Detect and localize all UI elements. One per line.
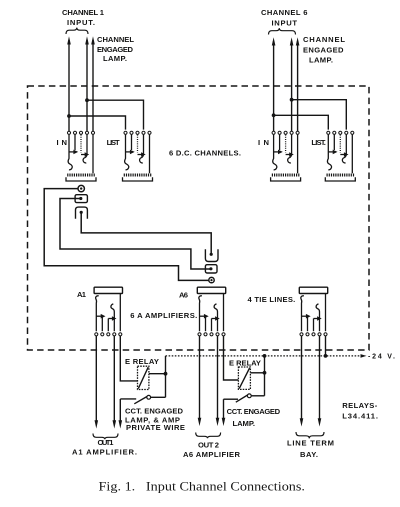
svg-text:BAY.: BAY. bbox=[300, 450, 318, 459]
svg-text:LIST.: LIST. bbox=[311, 138, 326, 147]
dashed equipment enclosure border bbox=[28, 86, 370, 350]
wire E relay (A1) coil to -24V riser bbox=[149, 373, 166, 375]
brace OUT 1 bbox=[93, 434, 118, 440]
svg-text:-24 V.: -24 V. bbox=[368, 354, 395, 361]
wire channel 6 engaged lamp lead (with up arrow) bbox=[296, 37, 300, 131]
ring contact of channel 1 plug bbox=[75, 195, 87, 203]
svg-text:IN: IN bbox=[57, 138, 68, 147]
brace channel 1 input pair bbox=[66, 28, 88, 34]
svg-text:RELAYS-: RELAYS- bbox=[342, 401, 377, 410]
wire branch channel 6 line B to LIST jack bbox=[292, 100, 347, 130]
svg-text:CCT. ENGAGED: CCT. ENGAGED bbox=[227, 407, 281, 416]
tie line jack bbox=[299, 287, 327, 336]
relay E (A6) coil bbox=[238, 367, 250, 389]
svg-text:6 D.C. CHANNELS.: 6 D.C. CHANNELS. bbox=[169, 149, 241, 158]
svg-text:LAMP.: LAMP. bbox=[233, 419, 256, 428]
wire plug lamp to tie plug lamp bbox=[44, 189, 209, 281]
svg-text:CHANNEL: CHANNEL bbox=[303, 35, 345, 44]
junction -24V rail / tie line sleeve bbox=[324, 354, 328, 358]
svg-text:CCT. ENGAGED: CCT. ENGAGED bbox=[125, 407, 184, 416]
junction E relay (A6) coil/riser bbox=[263, 371, 267, 375]
relay E (A1) contact bbox=[134, 395, 165, 403]
jack LIST (channel 1) bbox=[123, 131, 153, 181]
wire -24V riser (A1) bbox=[165, 356, 167, 397]
svg-text:A6: A6 bbox=[179, 291, 188, 300]
svg-text:L34.411.: L34.411. bbox=[342, 412, 378, 421]
wire branch channel 6 line A to LIST jack bbox=[274, 115, 329, 129]
wire -24V supply rail (with right arrow) bbox=[166, 354, 367, 358]
svg-text:LAMP.: LAMP. bbox=[309, 56, 333, 65]
ring contact of tie line plug bbox=[205, 265, 217, 273]
lamp contact of tie line plug bbox=[209, 277, 214, 282]
wire channel 1 input line B (with up arrow) bbox=[85, 36, 89, 131]
svg-text:INPUT: INPUT bbox=[272, 18, 298, 27]
svg-text:E RELAY: E RELAY bbox=[125, 357, 159, 366]
svg-text:E RELAY: E RELAY bbox=[229, 358, 261, 367]
svg-text:CHANNEL 1: CHANNEL 1 bbox=[62, 8, 105, 17]
junction E relay (A1) coil/riser bbox=[164, 372, 168, 376]
svg-text:ENGAGED: ENGAGED bbox=[303, 45, 344, 54]
junction channel 6 line A bbox=[272, 113, 276, 117]
wire channel 6 input line A (with up arrow) bbox=[272, 37, 276, 131]
svg-text:OUT 2: OUT 2 bbox=[198, 440, 219, 449]
wire channel 1 input line A (with up arrow) bbox=[67, 36, 71, 131]
wire A1 output lead 2 (down arrow) bbox=[113, 336, 117, 429]
wire E relay (A6) coil to -24V riser bbox=[250, 372, 264, 374]
wire A6 output lead 2 (down arrow) bbox=[216, 336, 220, 426]
svg-text:A1: A1 bbox=[77, 290, 87, 299]
svg-text:IN: IN bbox=[258, 138, 269, 147]
svg-text:PRIVATE WIRE: PRIVATE WIRE bbox=[126, 423, 185, 432]
wire tie line sleeve to -24V rail bbox=[325, 336, 327, 356]
wire E relay (A6) contact to private wire lead bbox=[224, 398, 239, 400]
wire A1 output lead 1 (down arrow) bbox=[95, 336, 99, 429]
wire channel 6 input line B (with up arrow) bbox=[290, 37, 294, 131]
svg-text:CHANNEL: CHANNEL bbox=[97, 35, 134, 44]
jack IN (channel 1) bbox=[66, 131, 96, 181]
svg-text:INPUT.: INPUT. bbox=[67, 18, 95, 27]
wire A1 sleeve to E relay coil bbox=[120, 336, 137, 381]
wire branch channel 1 line B to LIST jack bbox=[87, 100, 144, 129]
svg-text:OUT 1: OUT 1 bbox=[98, 438, 115, 447]
lamp contact of channel 1 plug bbox=[78, 185, 84, 191]
wire E relay (A1) contact to private wire lead bbox=[120, 398, 136, 400]
svg-text:A1 AMPLIFIER.: A1 AMPLIFIER. bbox=[72, 448, 137, 457]
wire A6 private wire lead (down arrow) bbox=[222, 399, 226, 426]
svg-text:Fig. 1. Input Channel Connec: Fig. 1. Input Channel Connections. bbox=[99, 479, 306, 494]
junction -24V rail / A6 riser bbox=[263, 354, 267, 358]
jack LIST (channel 6) bbox=[325, 131, 355, 181]
brace channel 6 input pair bbox=[269, 28, 296, 34]
wire A6 output lead 1 (down arrow) bbox=[198, 336, 202, 426]
brace line term bay bbox=[296, 432, 324, 438]
junction channel 1 line A bbox=[67, 114, 71, 118]
amplifier jack A6 bbox=[197, 287, 225, 336]
junction channel 6 line B bbox=[290, 98, 294, 102]
svg-text:6 A AMPLIFIERS.: 6 A AMPLIFIERS. bbox=[130, 311, 197, 320]
svg-text:CHANNEL 6: CHANNEL 6 bbox=[261, 8, 308, 17]
svg-text:4 TIE LINES.: 4 TIE LINES. bbox=[248, 295, 296, 304]
svg-text:A6 AMPLIFIER: A6 AMPLIFIER bbox=[183, 450, 241, 459]
wire A1 private wire lead (down arrow) bbox=[119, 399, 123, 429]
wire -24V riser (A6) bbox=[264, 356, 266, 396]
wire branch channel 1 line A to LIST jack bbox=[69, 116, 126, 130]
svg-text:ENGAGED: ENGAGED bbox=[97, 45, 134, 54]
wire plug tip to tie plug tip bbox=[81, 212, 211, 254]
wire channel 1 engaged lamp lead (with up arrow) bbox=[91, 36, 95, 131]
tip contact of tie line plug bbox=[205, 249, 218, 261]
svg-text:LAMP.: LAMP. bbox=[103, 54, 127, 63]
amplifier jack A1 bbox=[94, 287, 122, 336]
wire A6 sleeve to E relay coil bbox=[224, 336, 239, 380]
wire line term lead 1 (down arrow) bbox=[300, 336, 304, 427]
relay E (A1) coil bbox=[138, 366, 149, 389]
junction channel 1 line B bbox=[85, 98, 89, 102]
tip contact of channel 1 plug bbox=[76, 207, 88, 219]
jack IN (channel 6) bbox=[271, 131, 301, 181]
svg-text:LINE TERM: LINE TERM bbox=[287, 439, 334, 448]
wire plug ring to tie plug ring bbox=[60, 199, 211, 270]
svg-text:LIST: LIST bbox=[107, 138, 120, 147]
wire line term lead 2 (down arrow) bbox=[318, 336, 322, 427]
brace OUT 2 bbox=[196, 433, 221, 439]
relay E (A6) contact bbox=[236, 394, 265, 402]
